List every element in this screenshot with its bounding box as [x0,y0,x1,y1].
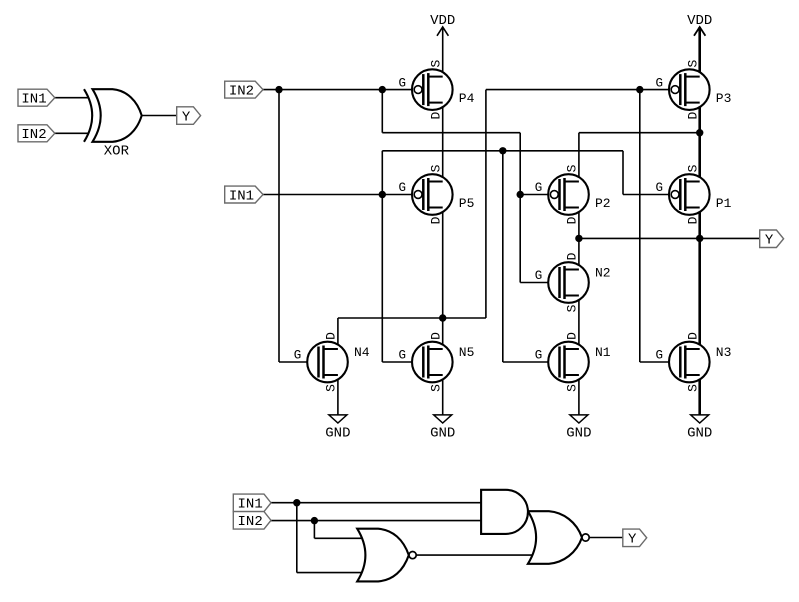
svg-text:N2: N2 [595,266,611,281]
svg-text:P1: P1 [716,196,732,211]
junction at (296.8,502.7) [293,499,300,506]
svg-text:IN1: IN1 [238,497,263,513]
output tag Y [760,230,784,249]
junction at (502.8,150.8) [499,147,506,154]
wire P1 drain to N3 drain [698,208,701,350]
input tag IN1 [225,186,263,204]
svg-text:Y: Y [628,532,637,548]
svg-text:S: S [685,60,700,68]
wire to NOR1 lower input [297,572,363,574]
wire to N3 gate [640,361,680,363]
svg-text:G: G [294,349,302,363]
svg-text:G: G [656,349,664,363]
output tag Y [177,107,201,126]
ground symbol GND at x=578.9 [566,375,591,441]
svg-text:N1: N1 [595,345,611,360]
transistor N5 (NMOS) [399,332,475,392]
wire IN1 jog down [622,151,624,195]
wire N2 source to N1 drain [578,296,580,350]
NOR gate (small, input stage) [357,529,416,582]
svg-text:S: S [685,384,700,392]
wire IN1 vertical to N1 [502,151,504,362]
input tag IN2 [233,512,271,531]
ground symbol GND at x=442.7 [430,375,455,441]
transistor P1 (PMOS) [656,164,732,224]
svg-text:IN2: IN2 [229,83,254,99]
wire P2 drain to N2 drain [578,208,580,270]
svg-text:Y: Y [182,109,191,125]
svg-text:GND: GND [687,425,712,441]
input tag IN2 [18,125,55,143]
wire NOR2 output to Y tag [589,537,623,539]
svg-text:S: S [428,164,443,172]
svg-text:N4: N4 [354,345,370,360]
transistor N3 (NMOS) [656,332,732,392]
wire node B horizontal [338,317,486,319]
svg-text:S: S [428,60,443,68]
svg-text:G: G [656,76,664,90]
svg-text:P2: P2 [595,196,611,211]
svg-text:D: D [565,216,580,224]
wire to P2 gate [520,194,550,196]
svg-text:G: G [399,76,407,90]
wire IN2 branch down [381,90,383,133]
wire IN2 to AND gate [271,520,481,522]
junction at (699.7,132.7) [696,129,703,136]
svg-text:G: G [656,181,664,195]
power symbol VDD at x=442.7 [430,13,455,76]
wire IN1 horizontal to P1 [382,150,623,152]
power symbol VDD at x=699.7 [687,13,712,76]
wire P2 source to P3 drain [579,132,700,134]
junction at (639.8,89.6) [636,86,643,93]
NOR gate (big, output stage) [528,511,589,564]
transistor P2 (PMOS) [535,164,611,224]
svg-text:S: S [428,384,443,392]
output tag Y [623,529,647,548]
svg-text:GND: GND [566,425,591,441]
svg-text:D: D [685,112,700,120]
junction at (520.2,194.5) [517,191,524,198]
svg-text:S: S [565,304,580,312]
input tag IN1 [233,494,271,513]
wire IN1 to P5 gate [263,194,415,196]
svg-text:P4: P4 [459,91,475,106]
svg-text:G: G [535,181,543,195]
svg-text:P5: P5 [459,196,475,211]
wire to N4 gate [279,361,319,363]
wire IN2 branch down [313,521,315,539]
svg-text:IN1: IN1 [229,188,254,204]
wire IN2 horizontal to P2/N2 column [382,132,520,134]
wire IN1 to AND gate [271,502,481,504]
svg-text:D: D [428,112,443,120]
wire to NOR1 upper input [314,537,363,539]
wire XOR input IN2 [55,132,89,134]
wire IN1 branch down [296,503,298,573]
svg-text:G: G [535,269,543,283]
transistor N1 (NMOS) [535,332,611,392]
wire XOR input IN1 [55,97,89,99]
svg-text:S: S [324,384,339,392]
svg-text:D: D [565,252,580,260]
wire node B vertical to N3 [639,90,641,362]
svg-text:G: G [399,349,407,363]
svg-text:S: S [685,164,700,172]
svg-text:VDD: VDD [430,13,455,29]
wire to N2 gate [520,282,559,284]
junction at (578.9,238.4) [575,235,582,242]
svg-text:S: S [565,384,580,392]
wire P3 drain to P1 source [698,103,701,182]
svg-text:P3: P3 [716,91,732,106]
ground symbol GND at x=337.9 [325,375,350,441]
wire IN1 vertical branch [381,151,383,362]
svg-text:D: D [685,216,700,224]
transistor P4 (PMOS) [399,60,475,120]
svg-text:IN2: IN2 [238,514,263,530]
junction at (279,89.6) [275,86,282,93]
svg-text:G: G [535,349,543,363]
junction at (699.7,238.4) [696,235,703,242]
transistor N2 (NMOS) [535,252,611,312]
wire node B to P3 gate [486,89,671,91]
svg-text:IN1: IN1 [21,92,46,108]
svg-text:N5: N5 [459,345,475,360]
wire NOR1 output to NOR2 [416,554,540,556]
transistor N4 (NMOS) [294,332,370,392]
svg-text:GND: GND [430,425,455,441]
svg-text:N3: N3 [716,345,732,360]
svg-text:XOR: XOR [104,144,130,160]
svg-text:VDD: VDD [687,13,712,29]
wire to P1 gate [623,194,671,196]
wire IN2 vertical to N2 [519,133,521,283]
wire P4 drain to P5 source [442,103,444,182]
wire P2 source up [578,133,580,182]
wire IN2 to P4 gate [263,89,415,91]
junction at (442.7,318) [439,314,446,321]
wire output Y to tag [700,237,760,239]
svg-text:D: D [685,332,700,340]
AND gate [481,490,528,534]
svg-text:Y: Y [765,233,774,249]
svg-text:D: D [428,216,443,224]
junction at (382.3,194.5) [379,191,386,198]
junction at (314.4,520.6) [311,517,318,524]
svg-text:GND: GND [325,425,350,441]
input tag IN1 [18,89,55,107]
wire output Y horizontal [579,237,700,239]
transistor P3 (PMOS) [656,60,732,120]
svg-text:D: D [428,332,443,340]
svg-text:D: D [324,332,339,340]
wire IN2 branch down to N4 [278,90,280,362]
svg-text:G: G [399,181,407,195]
XOR gate body [84,89,142,142]
wire node B vertical up [485,90,487,318]
wire to N5 gate [382,361,422,363]
input tag IN2 [225,81,263,99]
wire N4 drain up [337,318,339,349]
wire to N1 gate [503,361,559,363]
svg-text:IN2: IN2 [21,127,46,143]
junction at (382.3,89.6) [379,86,386,93]
wire P5 drain to N5 drain [442,208,444,350]
svg-text:D: D [565,332,580,340]
svg-text:S: S [565,164,580,172]
wire XOR output to Y [142,115,177,117]
ground symbol GND at x=699.7 [687,375,712,441]
transistor P5 (PMOS) [399,164,475,224]
